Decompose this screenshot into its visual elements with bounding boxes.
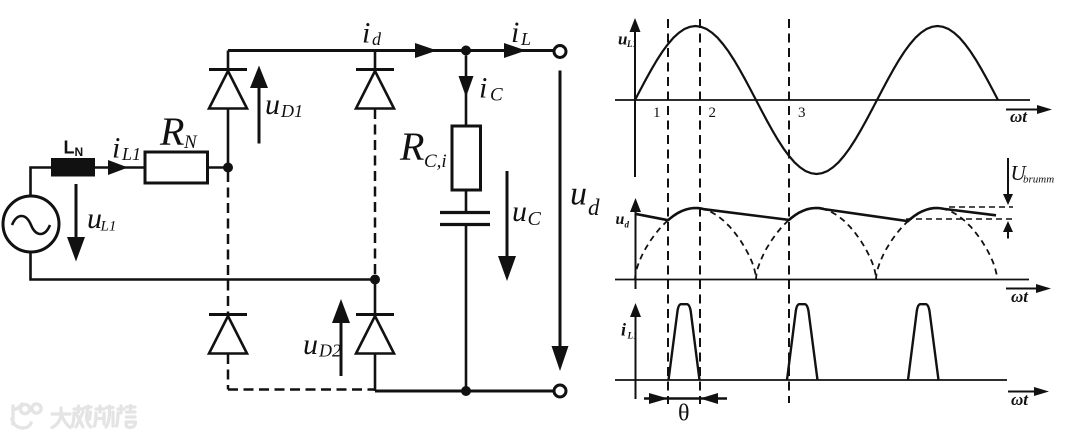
capacitor C1 [440, 213, 490, 225]
label U_brumm [1011, 161, 1055, 186]
svg-text:ωt: ωt [1010, 107, 1028, 126]
label u_C [512, 195, 542, 230]
plot2 solid u_d curve [635, 208, 996, 221]
wire node B down to R_C,i [465, 56, 468, 127]
svg-text:i: i [362, 17, 370, 50]
ripple dashed line top [949, 206, 1013, 208]
svg-text:brumm: brumm [1023, 174, 1054, 186]
dashed line 3 [788, 19, 790, 403]
resistor R_C,i [452, 126, 481, 190]
svg-text:d: d [625, 220, 630, 230]
AC source V1 [3, 196, 59, 252]
wire D1 to top rail [227, 51, 230, 70]
svg-text:L1: L1 [627, 331, 638, 341]
label u_L1 [87, 202, 116, 235]
watermark logo [12, 404, 41, 428]
svg-text:d: d [372, 29, 382, 49]
label u_D2 [303, 328, 341, 361]
plot2 wt arrow [1006, 284, 1051, 293]
plot2 x-axis [615, 279, 1029, 281]
dashed bottom rail wire [228, 388, 375, 391]
svg-text:1: 1 [653, 105, 661, 121]
plot3 label i_L1 [621, 320, 638, 341]
svg-text:ωt: ωt [1011, 390, 1029, 409]
dashed line 2 [699, 19, 701, 404]
svg-text:u: u [265, 88, 280, 121]
label R_N [159, 109, 198, 154]
wire node A up to D1 [227, 109, 230, 168]
svg-text:N: N [75, 145, 84, 159]
plot1 label u_L1 [618, 30, 637, 50]
wire source bottom to node C [31, 252, 376, 280]
inductor L_N [51, 158, 95, 177]
diode D3 [209, 315, 247, 354]
label L_N [64, 138, 84, 160]
plot1 sine u_L1 [635, 26, 998, 174]
diode D1 [209, 70, 247, 109]
resistor R_N [145, 152, 208, 183]
theta dimension line [644, 397, 727, 399]
top rail wire [228, 49, 554, 52]
label i_d [362, 17, 382, 50]
plot1 wt arrow [1006, 105, 1052, 114]
dashed line 1 [667, 19, 669, 404]
theta left arrowhead [649, 393, 668, 404]
wire top rail to D2 [374, 51, 377, 70]
svg-text:d: d [588, 195, 600, 220]
arrow u_L1 [67, 184, 85, 262]
svg-text:u: u [616, 211, 625, 228]
ripple dashed line bottom [906, 218, 1013, 220]
node B junction dot [461, 46, 471, 56]
label i_L1 [112, 132, 141, 165]
svg-text:N: N [183, 132, 198, 153]
svg-text:C: C [490, 85, 503, 106]
plot2 y-axis [630, 198, 641, 289]
svg-text:i: i [621, 320, 626, 340]
diode D2 [356, 70, 394, 109]
theta right arrowhead [700, 393, 718, 404]
label i_L [511, 16, 531, 49]
wire R_C,i to capacitor [465, 190, 468, 211]
svg-text:ωt: ωt [1011, 287, 1029, 306]
wire R_N to node A [208, 166, 229, 169]
pulse 2 [787, 304, 818, 380]
arrow u_d [552, 71, 569, 372]
svg-text:2: 2 [709, 105, 717, 121]
svg-text:R: R [399, 124, 424, 169]
plot2 label u_d [616, 211, 630, 230]
svg-text:u: u [570, 176, 587, 213]
terminal top right [554, 46, 566, 58]
label i_C [479, 72, 503, 106]
wire D4 to bottom rail [374, 354, 377, 391]
wire node C to D4 [374, 280, 377, 315]
svg-text:u: u [512, 195, 527, 228]
svg-text:L1: L1 [100, 219, 117, 235]
dashed wire node A to D3 [227, 172, 230, 314]
plot3 y-axis [630, 303, 641, 399]
svg-text:D2: D2 [318, 341, 341, 361]
node A junction dot [223, 163, 233, 173]
svg-text:L1: L1 [121, 144, 141, 164]
svg-text:L: L [520, 29, 531, 49]
plot2 dashed rectified humps [635, 208, 997, 280]
arrow i_C [459, 76, 474, 97]
node D junction dot [461, 386, 471, 396]
arrow i_L1 [108, 160, 128, 175]
dashed wire D2 to node C [374, 109, 377, 279]
plot3 x-axis [615, 379, 1007, 381]
wire source top to L_N [31, 168, 52, 197]
arrow i_L [504, 43, 526, 58]
dashed wire D3 to bottom rail [227, 354, 230, 390]
terminal bottom right [554, 385, 566, 397]
label u_D1 [265, 88, 303, 121]
wire capacitor to bottom rail [465, 226, 468, 391]
pulse 1 [669, 304, 700, 380]
arrow u_D2 [332, 299, 350, 376]
arrow u_D1 [250, 66, 268, 144]
svg-text:L1: L1 [626, 39, 637, 49]
plot3 wt arrow [1008, 387, 1049, 396]
wire L_N to R_N [95, 166, 145, 169]
node C junction dot [370, 275, 380, 285]
svg-text:C,i: C,i [424, 151, 447, 172]
arrow u_C [498, 171, 516, 281]
diode D4 [356, 315, 394, 354]
svg-text:i: i [511, 16, 519, 49]
U_brumm lower arrow [1003, 221, 1013, 239]
svg-text:L: L [64, 138, 75, 158]
svg-text:θ: θ [678, 401, 690, 427]
svg-text:i: i [479, 72, 487, 105]
svg-text:i: i [112, 132, 120, 165]
svg-text:C: C [528, 208, 542, 230]
label R_C,i [399, 124, 447, 172]
svg-text:R: R [159, 109, 184, 154]
bottom rail wire solid [375, 390, 554, 393]
plot1 x-axis [615, 99, 1030, 101]
U_brumm upper arrow [1003, 158, 1013, 205]
arrow i_d [415, 43, 437, 58]
svg-text:u: u [303, 328, 318, 361]
svg-text:D1: D1 [280, 101, 303, 121]
svg-text:3: 3 [798, 105, 806, 121]
plot1 y-axis [630, 18, 641, 177]
watermark text [52, 406, 136, 428]
label u_d [570, 176, 600, 221]
pulse 3 [908, 304, 939, 380]
